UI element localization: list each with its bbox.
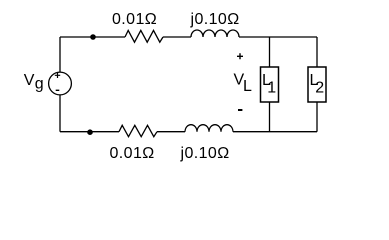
- svg-text:j0.10Ω: j0.10Ω: [190, 11, 240, 28]
- svg-text:0.01Ω: 0.01Ω: [110, 145, 155, 162]
- svg-text:2: 2: [315, 80, 324, 97]
- svg-text:L: L: [243, 78, 252, 95]
- svg-text:j0.10Ω: j0.10Ω: [180, 145, 230, 162]
- svg-text:0.01Ω: 0.01Ω: [112, 11, 157, 28]
- svg-text:1: 1: [267, 80, 276, 97]
- svg-text:V: V: [24, 72, 35, 89]
- svg-text:g: g: [35, 76, 44, 93]
